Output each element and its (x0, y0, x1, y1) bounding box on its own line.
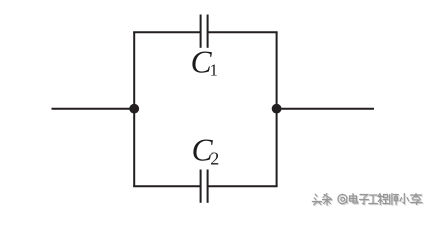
capacitor C1 (201, 15, 208, 48)
node: right junction dot (272, 104, 282, 114)
svg-text:2: 2 (210, 149, 219, 169)
wire: top segment left of C1 (133, 31, 200, 33)
watermark: 头条 @电子工程师小李 (drawn as vector strokes) (312, 194, 423, 207)
wire: right external lead (277, 108, 375, 110)
wire: left external lead (52, 108, 135, 110)
wire: bottom segment right of C2 (208, 185, 278, 187)
wire: left vertical branch (133, 32, 135, 187)
wire: right vertical branch (276, 32, 278, 187)
svg-text:1: 1 (210, 61, 218, 80)
label C1 (191, 45, 218, 80)
label C2 (192, 132, 220, 168)
wire: top segment right of C1 (208, 31, 278, 33)
wire: bottom segment left of C2 (133, 185, 200, 187)
node: left junction dot (129, 104, 139, 114)
capacitor C2 (201, 170, 208, 203)
